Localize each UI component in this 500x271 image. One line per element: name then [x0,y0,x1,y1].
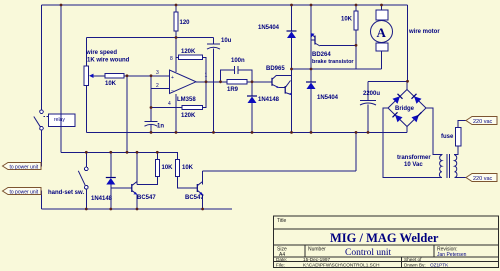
svg-text:Number: Number [308,247,326,253]
svg-text:MIG / MAG Welder: MIG / MAG Welder [330,231,439,245]
resistor 10K (motor) [341,11,358,30]
svg-text:120K: 120K [181,113,196,119]
wire +V riser right [407,5,409,81]
svg-text:Bridge: Bridge [395,106,415,112]
svg-text:10K: 10K [105,81,117,87]
svg-text:15-Dec-1997: 15-Dec-1997 [303,257,330,262]
wire brake transistor vertical with 1N5404 [310,5,312,82]
svg-text:1: 1 [205,73,208,79]
wire node A vertical to control rail [126,76,128,153]
wire 1n cap leads [150,108,152,122]
svg-text:120: 120 [180,20,191,26]
wire hand-set switch top [85,152,87,167]
wire brake collector to 10K node [320,44,356,46]
svg-text:fuse: fuse [441,134,454,140]
svg-text:1R9: 1R9 [227,87,239,93]
resistor 120K upper [179,49,203,59]
wire darlington collector vertical with 1N5404 [291,5,293,31]
transistor Q3 BC547 [132,182,157,202]
svg-text:10K: 10K [182,165,194,171]
wire 10K#1 top lead [156,152,158,159]
wire op-amp output row [196,81,272,83]
svg-text:hand-set sw.: hand-set sw. [48,190,84,196]
transformer T1 [397,154,457,178]
svg-text:8: 8 [170,56,173,62]
wire BC547 collector riser [355,132,357,171]
svg-text:to power unit: to power unit [10,189,39,195]
fuse F1 [441,128,461,147]
bridge rectifier [388,90,426,127]
svg-text:BD264: BD264 [312,52,331,58]
wire motor leads [381,5,383,10]
title block [274,216,499,268]
diode 1N5404 (motor clamp) [306,82,339,101]
wire 120 / pin8 vertical [175,5,177,12]
wire op-amp loop top rail [86,37,213,39]
wire 1N4148 vertical (hand-set) [110,152,112,177]
svg-text:wire motor: wire motor [408,29,440,35]
wire motor minus node row [292,68,382,70]
svg-text:−: − [171,88,174,94]
wire power flag 2 to hand-set rail [39,191,42,209]
wire BC547#1 collector [136,152,138,184]
svg-text:1n: 1n [157,124,164,130]
svg-text:K:\CAD\PFW\SCH\CONTROL1.SCH: K:\CAD\PFW\SCH\CONTROL1.SCH [303,263,380,268]
wire pot wiper to 10K [92,75,105,77]
svg-text:Sheet of: Sheet of [404,257,422,262]
svg-text:to power unit: to power unit [10,164,39,170]
wire BC547#2 collector line [203,170,356,172]
svg-text:Title: Title [277,218,286,224]
capacitor 2200u [360,91,380,105]
wire control rail [61,152,178,159]
wire pot top [85,38,87,67]
svg-text:10 Vac: 10 Vac [404,162,423,168]
transistor Q2 BD264 brake [311,33,355,65]
wire 10K to op-amp +input (pin 3) [124,75,170,77]
svg-text:transformer: transformer [397,155,431,161]
svg-text:brake transistor: brake transistor [312,59,354,65]
relay contact switch [34,110,48,130]
svg-text:+: + [171,75,174,81]
wire fuse to 220vac flag [458,121,466,128]
wire BC547#2 emitter to rail [202,195,204,210]
relay K1 coil box [49,114,76,127]
svg-text:OZ1PTK: OZ1PTK [430,263,449,268]
svg-text:1N4148: 1N4148 [91,196,113,202]
svg-text:10K: 10K [162,165,174,171]
svg-text:2200u: 2200u [363,91,380,97]
svg-text:120K: 120K [181,49,196,55]
resistor 10K (wiper) [105,74,124,87]
wire relay coil vertical [60,5,62,152]
wire 100n right lead [238,70,252,82]
resistor 10K #2 [176,160,194,177]
svg-text:Drawn By:: Drawn By: [404,263,426,268]
wire hand-set bottom rail [42,208,233,210]
transistor Q4 BC547 [185,182,204,202]
resistor 10K #1 [155,160,173,177]
svg-text:1K wire wound: 1K wire wound [87,58,130,64]
potentiometer wire speed 1K [84,50,130,86]
svg-text:2: 2 [156,83,159,89]
svg-text:Jan Petersen: Jan Petersen [437,252,467,258]
connector flag to power unit (upper) [3,163,42,171]
wire hand-set switch bottom [85,189,87,209]
wire pot bottom to ground rail [85,86,87,133]
wire BC547#1 base row [111,187,132,189]
transistor Q1 BD965 darlington [266,66,292,95]
resistor 1R9 [227,80,247,93]
wire transformer secondary top to fuse [455,146,458,155]
wire ground rail [86,131,407,133]
wire left vertical to relay contact [41,5,43,110]
wire 100n left lead [221,70,235,82]
capacitor 1n [145,121,165,129]
capacitor 100n [231,58,245,74]
svg-text:A: A [377,25,387,40]
svg-text:Control unit: Control unit [345,248,392,258]
svg-text:BD965: BD965 [266,66,285,72]
svg-text:Date:: Date: [276,257,287,262]
connector flag to power unit (lower) [3,188,42,196]
wire 120K lower leads [151,107,182,109]
wire 2200u leads [367,81,369,100]
wire 1N4148 to ground [251,82,253,96]
wire relay contact to power flag 1 [39,130,42,166]
svg-text:LM358: LM358 [177,97,196,103]
wire bridge top lead [406,81,408,89]
op-amp U1 LM358 [156,56,208,107]
wire top +V rail [42,4,408,6]
wire transformer secondary bottom to 220vac flag [455,177,466,179]
diode 1N4148 (hand-set) [91,178,116,203]
wire bridge left AC to transformer [383,108,441,178]
svg-text:relay: relay [54,117,65,123]
svg-text:BC547: BC547 [185,195,204,201]
wire +V row to 2200u [368,80,408,82]
connector flag 220 vac (bottom) [466,174,497,182]
svg-text:3: 3 [156,70,159,76]
wire 10u cap leads [213,38,215,45]
wire bridge bottom lead [406,127,408,133]
svg-text:1N5404: 1N5404 [317,95,339,101]
svg-text:10u: 10u [221,38,232,44]
wire BC547#2 collector stub [202,171,204,185]
resistor 120K lower [181,105,203,119]
svg-text:File:: File: [276,263,285,268]
wire 10K#2 bottom to BC547#2 base [178,177,197,189]
svg-text:10K: 10K [341,17,353,23]
wire BC547#1 emitter to rail [136,195,138,210]
wire op-amp -input (pin 2) loop [151,87,170,89]
svg-text:1N4148: 1N4148 [258,97,280,103]
wire 10K motor resistor vertical [355,5,357,11]
diode 1N4148 (output clamp) [247,96,280,103]
wire 10K#1 bottom to BC547#1 collector [137,177,157,185]
svg-text:220 vac: 220 vac [473,119,493,125]
svg-text:100n: 100n [231,58,245,64]
connector flag 220 vac (top) [466,117,497,125]
capacitor 10u [207,38,232,49]
wire bridge right AC to transformer [426,108,441,155]
resistor 120 [174,12,190,31]
wire pin4 vertical to ground [175,94,177,132]
motor M1 wire motor with ammeter [371,10,441,51]
wire 120K upper left lead [176,56,179,58]
svg-text:wire speed: wire speed [85,50,117,56]
svg-text:BC547: BC547 [137,195,156,201]
switch hand-set sw. [48,167,88,196]
diode 1N5404 (darlington clamp) [258,25,297,38]
svg-text:1N5404: 1N5404 [258,25,280,31]
svg-text:220 vac: 220 vac [473,176,493,182]
svg-text:4: 4 [168,101,171,107]
